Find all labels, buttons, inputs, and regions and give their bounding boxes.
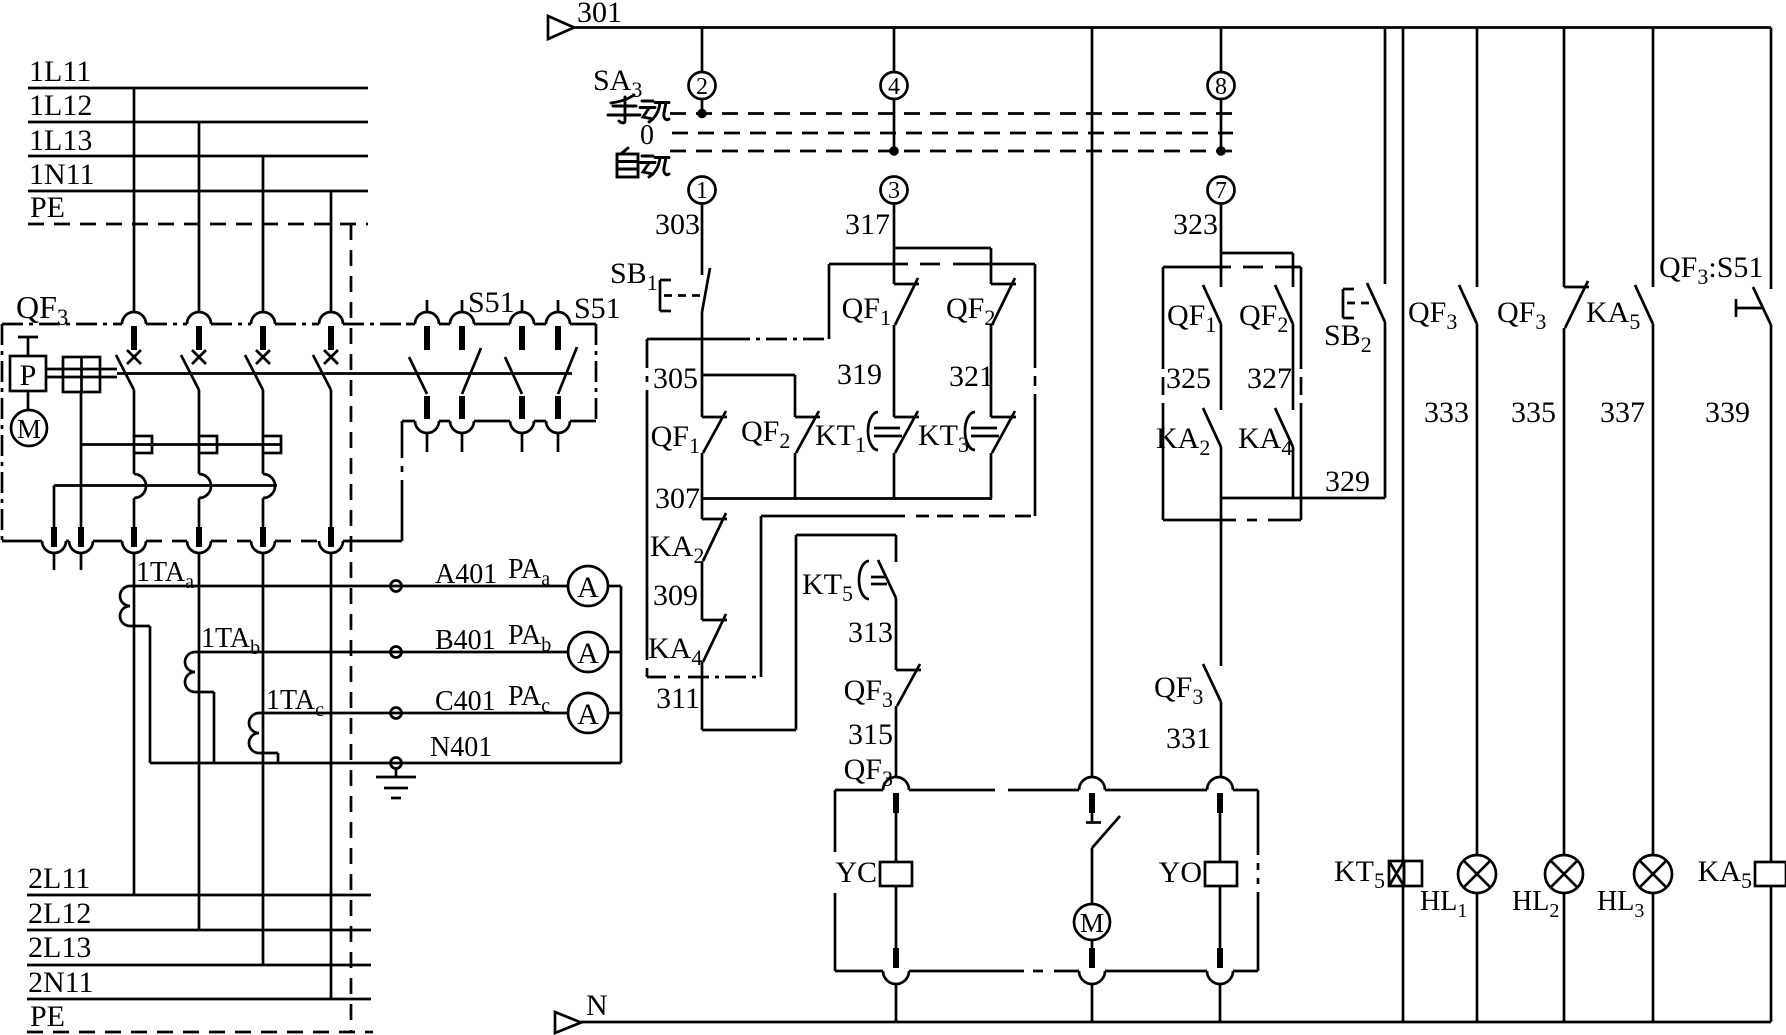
S51 top pin x=558 [555,326,561,350]
aux vertical left [53,486,56,530]
terminal N401 [391,758,402,769]
ground symbol [395,768,398,777]
SA3 dot auto-8 [1216,146,1226,156]
svg-text:B401: B401 [435,625,496,656]
S51 top stub x=427 [426,300,429,313]
protection unit P box [10,356,46,391]
S51 left drop [401,421,404,541]
wire SB2 to 329 [1384,322,1387,498]
S51 blade 1 [409,357,427,394]
wire pole4 down [330,553,333,999]
wire A401 [130,585,568,588]
svg-text:SB1: SB1 [610,257,658,295]
S51 bottom stub x=427 [426,433,429,452]
bus 2L11 [27,894,371,897]
QF3 bottom edge [2,540,402,543]
svg-text:337: 337 [1600,396,1645,429]
svg-text:317: 317 [845,208,890,241]
lamp HL2 [1545,855,1583,893]
svg-text:2L12: 2L12 [28,897,91,930]
svg-text:PAb: PAb [508,620,551,656]
S51 blade 3 [505,357,522,394]
group box 323 bottom [1163,519,1301,522]
svg-text:323: 323 [1173,208,1218,241]
QF3 top pin pole4 [328,326,334,350]
wire 301 to contact 2 [701,28,704,73]
plug box bottom pin M [1089,948,1095,968]
CT 1TAb return [195,691,214,694]
pole 2 blade [181,355,199,390]
wire 309 [701,561,704,620]
aux2 stub [80,553,83,570]
SA3 row manual (shou dong) [608,95,669,123]
svg-text:305: 305 [653,362,698,395]
S51 bottom plug arc x=558 [546,421,570,433]
svg-text:QF2: QF2 [1239,299,1288,337]
QF3 top pin pole2 [196,326,202,350]
svg-text:KT5: KT5 [802,568,853,606]
boundary line C [647,338,729,341]
group box 323 left [1162,267,1165,520]
QF3 box left edge [1,324,4,541]
svg-text:QF2: QF2 [741,415,790,453]
coil YO [1205,862,1237,886]
plug box left edge [834,790,837,971]
SA3 terminal 7 [1208,177,1235,204]
contact KA2 NO [1203,408,1221,447]
pole 2 magnetic release arc [199,474,211,498]
rail 301 arrow [548,16,574,39]
wire 333 top [1476,28,1479,288]
wire 303 [701,203,704,275]
contact QF2 NC b [991,283,1016,286]
wire 327 [1292,324,1295,410]
wire 1N11 to pole4 [330,191,333,312]
wire 307-KA2 [701,499,704,520]
QF3 top plug arc pole1 [122,312,146,324]
svg-text:307: 307 [655,482,700,515]
svg-text:QF1: QF1 [651,420,700,458]
pole 3 thermal release [263,436,281,453]
wire 301 to contact 8 [1220,28,1223,73]
wire KT5 coil column [1402,28,1405,862]
svg-text:S51: S51 [574,292,621,325]
wire PAb to bus [608,651,621,654]
S51 top stub x=462 [461,300,464,313]
wire 329 [1221,497,1385,500]
wire KA2b down [1220,447,1223,498]
wire KA5 to N [1770,886,1773,1022]
bus 1L13 [28,155,368,158]
svg-text:PAc: PAc [508,681,550,717]
svg-text:329: 329 [1325,465,1370,498]
wire 315 [895,706,898,778]
svg-text:N401: N401 [430,732,492,763]
bus 2N11 [27,998,371,1001]
svg-text:A: A [577,637,599,670]
S51 bottom edge [402,420,596,423]
svg-text:2N11: 2N11 [28,966,94,999]
svg-text:QF3: QF3 [844,674,893,712]
bus PE [28,223,368,226]
svg-text:3: 3 [888,178,900,204]
svg-text:1L11: 1L11 [29,55,91,88]
bus 1N11 [28,190,368,193]
boundary line B [829,263,1035,266]
wire YO to N [1219,886,1222,948]
CT 1TAc return [259,752,278,755]
plug box top pin YO [1217,793,1223,813]
pole 2 x-mark [192,350,206,364]
QF3 bottom plug arc aux1 [42,541,66,553]
svg-text:A: A [577,571,599,604]
svg-text:S51: S51 [468,286,515,319]
pole 1 wire mid [133,453,136,474]
S51 plug top arc x=462 [450,312,474,324]
wire C401 [259,712,568,715]
QF3 top plug arc pole2 [187,312,211,324]
CT 1TAc winding [249,713,259,753]
wire 335 top [1563,28,1566,288]
svg-text:1N11: 1N11 [29,158,95,191]
wire pole3 down [262,553,265,965]
wire SB2 top [1384,28,1387,285]
pushbutton SB1 [702,268,710,312]
plug box bottom arc YO [1207,971,1233,984]
wire 307 [702,497,992,500]
svg-text:335: 335 [1511,396,1556,429]
svg-text:QF3:S51: QF3:S51 [1659,251,1763,289]
svg-text:QF1: QF1 [1167,299,1216,337]
wire 317 [893,203,896,248]
trip linkage line 2 [54,484,277,487]
S51 bottom stub x=522 [521,433,524,452]
terminal A401 [391,581,402,592]
S51 top stub x=558 [557,300,560,313]
S51 bottom plug arc x=462 [450,421,474,433]
wire HL1 to N [1476,893,1479,1022]
plug box bottom arc M [1079,971,1105,984]
pole 1 wire low [133,498,136,529]
aux1 stub [53,553,56,570]
wire YC to N [895,886,898,948]
contact KA4 NC [702,619,727,622]
wire 319 [893,325,896,417]
CT 1TAa winding [120,586,130,626]
boundary drop 647 [646,339,649,677]
pole 1 blade [116,355,134,390]
wire 1L13 to pole3 [262,156,265,312]
boundary line E [647,676,761,679]
svg-text:PAa: PAa [508,554,550,590]
SA3 dashed row manual [670,112,1233,115]
svg-text:HL1: HL1 [1420,886,1467,922]
wire N401 [150,762,621,765]
plug box top edge [835,789,1258,792]
rail N [581,1021,1771,1024]
S51 top pin x=522 [519,326,525,350]
plug box bottom edge [835,970,1258,973]
boundary riser 829 [828,264,831,339]
wire 339 top [1770,28,1773,290]
coil YC [880,862,912,886]
wire 301 to contact 4 [893,28,896,73]
svg-text:331: 331 [1166,722,1211,755]
S51 bottom stub x=558 [557,433,560,452]
svg-text:2: 2 [696,74,708,100]
plug box top arc M [1079,777,1105,790]
QF3 bottom pin pole2 [196,527,202,547]
svg-text:P: P [20,359,37,392]
main linkage shaft [117,372,572,375]
linkage double line [46,368,117,371]
svg-text:KT3: KT3 [918,419,969,457]
ammeter PAc [568,693,608,733]
wire SB1 to 305 [701,312,704,375]
svg-text:319: 319 [837,358,882,391]
svg-text:321: 321 [949,360,994,393]
contact QF2 NC [795,416,820,419]
SA3 dot manual-2 [697,109,707,119]
pole 4 blade [313,355,331,390]
pole 2 thermal release [199,436,217,453]
branch QF2b drop [990,248,993,284]
svg-text:1TAa: 1TAa [136,557,194,593]
wire PE vertical [350,224,353,1032]
svg-text:QF3: QF3 [844,753,893,791]
svg-text:M: M [1080,908,1104,938]
wire to QF1c [1220,253,1223,287]
wire to YO [1219,813,1222,862]
QF3 bottom pin pole4 [328,527,334,547]
QF3 bottom pin pole3 [260,527,266,547]
wire M column [1091,28,1094,779]
S51 bottom stub x=462 [461,433,464,452]
rail 301 [574,26,1771,29]
QF3 bottom edge dashes [146,540,319,543]
S51 blade 4 [558,347,577,394]
svg-text:KA2: KA2 [1156,422,1210,460]
SA3 terminal 3 [881,177,908,204]
svg-text:1: 1 [696,178,708,204]
QF3 box top edge [2,323,406,326]
svg-text:HL3: HL3 [1597,886,1644,922]
QF3 top plug arc pole4 [319,312,343,324]
svg-text:1TAb: 1TAb [201,623,260,659]
S51 right edge [595,324,598,421]
svg-text:KA5: KA5 [1698,855,1752,893]
wire to YC [895,813,898,862]
SA3 row auto (zi dong) [617,148,669,177]
S51 plug top arc x=558 [546,312,570,324]
wire QF1 to 307 [701,453,704,499]
svg-text:C401: C401 [435,686,496,717]
QF3 trip antenna [18,336,38,339]
pole 3 x-mark [256,350,270,364]
svg-text:333: 333 [1424,396,1469,429]
pole 3 wire low [262,498,265,529]
contact KA5 NO 337 [1635,285,1653,324]
plug box top arc YO [1207,777,1233,790]
svg-text:SA3: SA3 [593,64,642,102]
ammeter PAb [568,632,608,672]
wire 1L12 to pole2 [198,122,201,312]
CT 1TAa return [130,625,150,628]
S51 plug top arc x=522 [510,312,534,324]
wire HL3 to N [1652,893,1655,1022]
contact QF3 NO 333 [1459,285,1477,324]
motor M circle [1074,904,1110,940]
terminal C401 [391,708,402,719]
wire 323 [1220,203,1223,253]
svg-text:PE: PE [30,1000,65,1033]
svg-text:309: 309 [653,579,698,612]
svg-text:339: 339 [1705,396,1750,429]
svg-text:M: M [17,414,41,444]
contact QF3:S51 [1753,287,1771,325]
linkage box [63,357,100,392]
S51 bottom plug arc x=522 [510,421,534,433]
bus 2L13 [27,964,371,967]
branch QF2 drop [794,375,797,417]
wire 331 [1220,702,1223,778]
svg-text:KA4: KA4 [648,632,702,670]
S51 bottom pin x=462 [459,396,465,419]
svg-text:1L12: 1L12 [29,89,92,122]
svg-text:QF3: QF3 [1154,671,1203,709]
trip linkage line 1 [81,443,281,446]
QF3 bottom plug arc pole1 [122,541,146,553]
charging motor M circle [11,410,47,446]
boundary line F [761,515,905,518]
pole 4 x-mark [324,350,338,364]
QF3 bottom pin aux2 [78,527,84,547]
plug box bottom pin YC [893,948,899,968]
SA3 stub 8 [1220,99,1223,151]
wire to QF1b [893,248,896,284]
bus 1L11 [28,87,368,90]
plug box top arc YC [883,777,909,790]
bus 2L12 [27,929,371,932]
SA3 terminal 2 [689,72,716,99]
SA3 terminal 1 [689,177,716,204]
svg-text:7: 7 [1215,178,1227,204]
svg-text:YO: YO [1159,856,1202,889]
QF3 bottom plug arc pole4 [319,541,343,553]
lamp HL3 [1634,855,1672,893]
wire 337 [1652,324,1655,855]
wire 311 [701,662,704,730]
bus 1L12 [28,121,368,124]
S51 bottom pin x=522 [519,396,525,419]
contact QF3 NC 335 [1564,286,1589,289]
wire KA4b down [1292,447,1295,498]
wire 1L11 to pole1 [133,88,136,312]
coil KT5 [1389,861,1404,886]
svg-text:A401: A401 [435,559,497,590]
svg-text:0: 0 [640,120,654,151]
SA3 stub 4 [893,99,896,151]
fork 317 [894,247,991,250]
pole 4 wire [330,390,333,529]
plug box top pin M [1089,793,1095,813]
pole 3 wire to heater [262,390,265,436]
plug box bottom arc YC [883,971,909,984]
QF3 bottom pin aux1 [51,527,57,547]
wire KT3 to 307 [990,453,993,499]
S51 top pin x=427 [424,326,430,350]
svg-text:KT1: KT1 [815,419,866,457]
contact QF2 NO [1275,285,1293,324]
wire 325 [1220,324,1223,410]
wire to QF1 [701,375,704,417]
QF3 bottom pin pole1 [131,527,137,547]
group box 323 right [1300,267,1303,520]
plug box bottom pin YO [1217,948,1223,968]
svg-text:KA5: KA5 [1586,296,1640,334]
QF3 top plug arc pole3 [251,312,275,324]
QF3 bottom plug arc pole2 [187,541,211,553]
svg-text:315: 315 [848,718,893,751]
pole 3 magnetic release arc [263,474,275,498]
wire 333 [1476,324,1479,855]
contact QF3 NO 331 [1203,664,1221,702]
QF3 bottom plug arc pole3 [251,541,275,553]
wire 339 [1770,325,1773,862]
SA3 dashed row auto [670,150,1233,153]
svg-text:QF3: QF3 [1408,296,1457,334]
pole 1 magnetic release arc [134,474,146,498]
ammeter PAa [568,566,608,606]
wire 335 [1563,328,1566,855]
QF3 top pin pole3 [260,326,266,350]
svg-text:1L13: 1L13 [29,124,92,157]
svg-text:QF1: QF1 [842,292,891,330]
svg-text:1TAc: 1TAc [266,685,324,721]
wire 337 top [1652,28,1655,288]
wire PAa to bus [608,585,621,588]
svg-text:303: 303 [655,208,700,241]
wire B401 [195,651,568,654]
svg-text:QF3: QF3 [1497,296,1546,334]
wire 313 [895,598,898,670]
SA3 dot auto-4 [889,146,899,156]
wire HL2 to N [1563,893,1566,1022]
pole 1 x-mark [127,350,141,364]
manual trip symbol [1086,821,1101,824]
svg-text:313: 313 [848,616,893,649]
S51 bottom pin x=427 [424,396,430,419]
svg-text:8: 8 [1215,74,1227,100]
svg-text:2L13: 2L13 [28,931,91,964]
svg-text:YC: YC [835,856,877,889]
contact QF1 NO [1203,285,1221,324]
wire trip to M [1091,848,1094,904]
SA3 dashed row 0 [672,132,1233,135]
svg-text:PE: PE [30,191,65,224]
plug box right edge [1257,790,1260,971]
S51 blade 2 [462,348,481,394]
pushbutton SB2 [1367,283,1385,322]
wire KT1 to 307 [893,453,896,499]
svg-text:N: N [586,989,608,1022]
wire PAc to bus [608,712,621,715]
wire P to M [27,391,30,410]
S51 plug top arc x=427 [415,312,439,324]
QF3 bottom plug arc aux2 [69,541,93,553]
wire 321 [990,325,993,417]
svg-text:SB2: SB2 [1324,319,1372,357]
